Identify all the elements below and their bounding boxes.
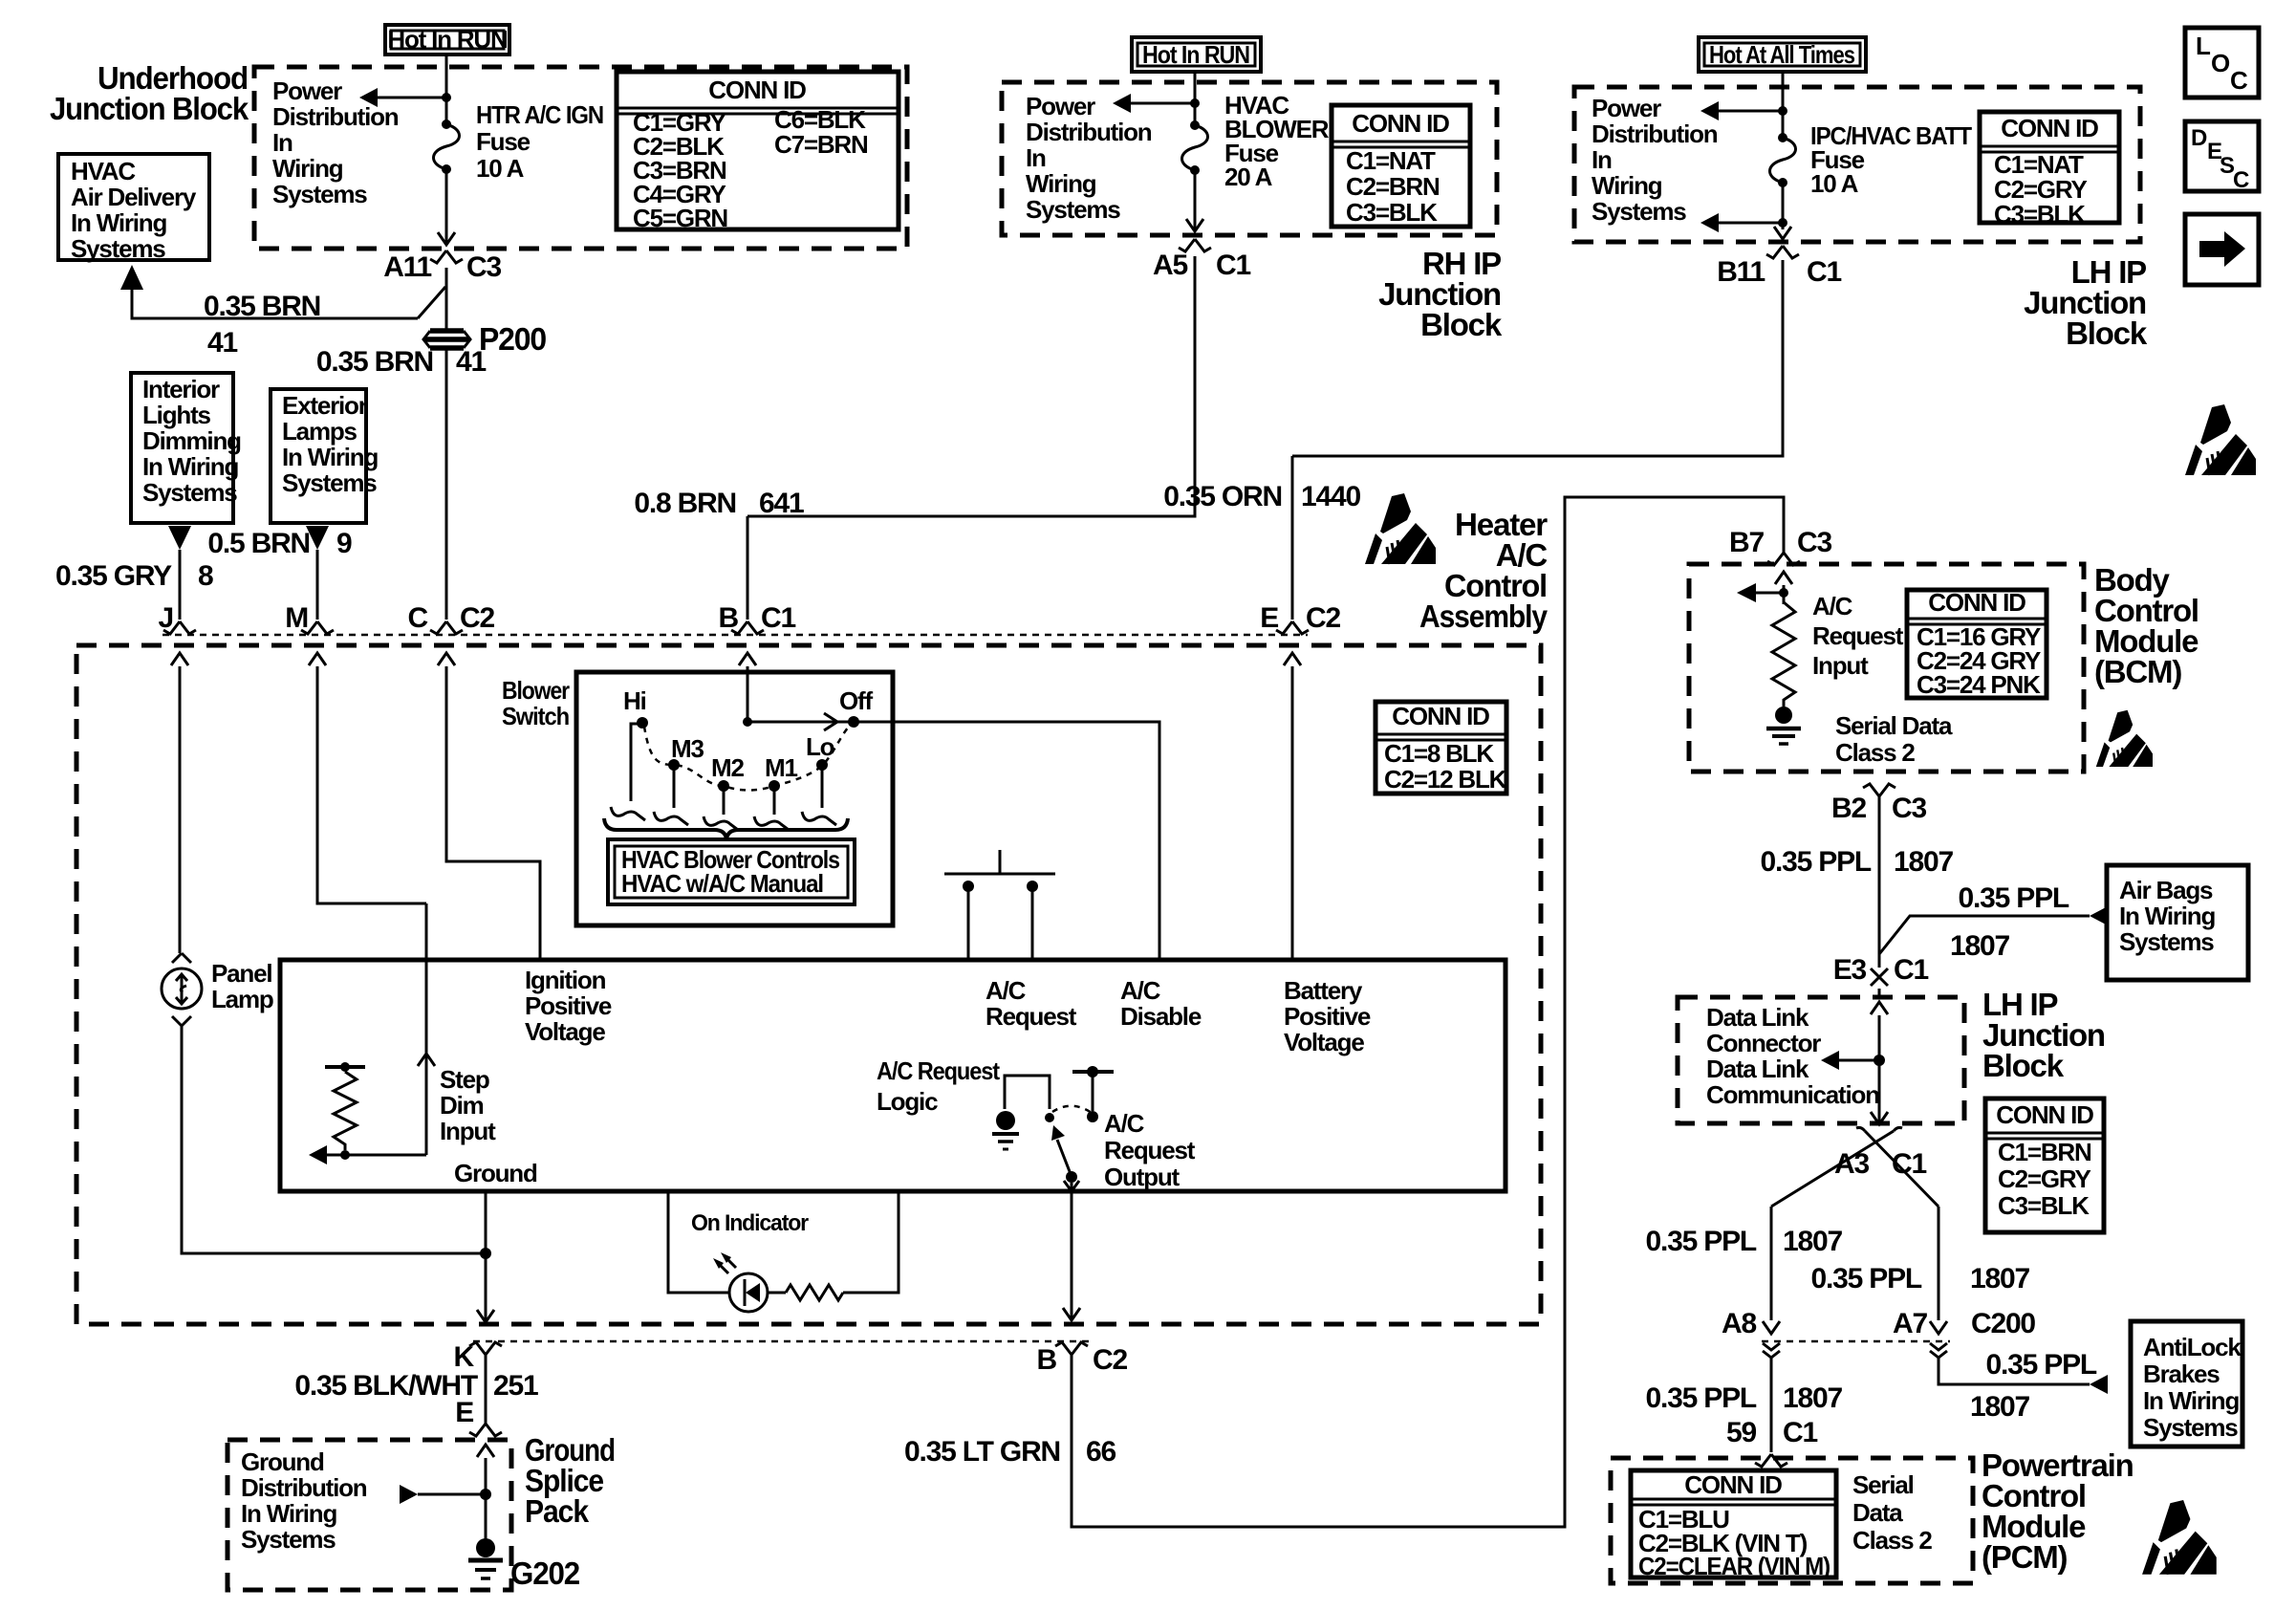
svg-text:CONN ID: CONN ID bbox=[708, 76, 806, 104]
svg-text:C2=BRN: C2=BRN bbox=[1346, 172, 1440, 201]
ground distribution feed arrow bbox=[400, 1485, 418, 1504]
svg-text:0.35 PPL: 0.35 PPL bbox=[1646, 1226, 1757, 1257]
HVAC Air Delivery reference box bbox=[58, 154, 209, 260]
connector thin dashed line (C200) bbox=[1762, 1340, 1950, 1343]
logic switch left contact bbox=[1045, 1113, 1054, 1122]
connector thin dashed line (assembly bottom) bbox=[473, 1340, 1090, 1343]
contact M2 bbox=[718, 780, 729, 792]
svg-text:Hi: Hi bbox=[623, 686, 646, 715]
svg-text:M3: M3 bbox=[671, 734, 704, 763]
power distribution arrow top (LH IP) bbox=[1718, 110, 1783, 113]
svg-text:1807: 1807 bbox=[1970, 1391, 2029, 1423]
on indicator resistor bbox=[786, 1285, 843, 1300]
entry arrow into splice pack bbox=[477, 1445, 494, 1457]
wire M inside assembly bbox=[317, 666, 426, 903]
svg-text:C1: C1 bbox=[1783, 1417, 1817, 1448]
wire Off to A/C disable bbox=[854, 722, 1159, 960]
svg-text:C1: C1 bbox=[1894, 954, 1928, 986]
svg-text:In Wiring: In Wiring bbox=[2143, 1386, 2239, 1415]
svg-text:C2: C2 bbox=[1306, 602, 1340, 634]
svg-text:0.35 PPL: 0.35 PPL bbox=[1959, 882, 2069, 914]
svg-text:Data Link: Data Link bbox=[1706, 1003, 1809, 1032]
svg-text:C: C bbox=[408, 602, 428, 634]
svg-text:Junction Block: Junction Block bbox=[50, 91, 249, 126]
svg-text:C3=24 PNK: C3=24 PNK bbox=[1917, 670, 2041, 699]
junction dot top (LH IP) bbox=[1778, 106, 1787, 116]
svg-text:K: K bbox=[454, 1341, 475, 1373]
svg-text:Exterior: Exterior bbox=[282, 391, 368, 420]
svg-text:A3: A3 bbox=[1834, 1148, 1869, 1180]
svg-text:0.35 BRN: 0.35 BRN bbox=[316, 346, 433, 378]
svg-text:CONN ID: CONN ID bbox=[1352, 109, 1449, 138]
svg-text:C: C bbox=[2230, 66, 2248, 95]
wire below fuse bbox=[1782, 183, 1785, 229]
connector A11/C3 fork bbox=[430, 250, 463, 263]
svg-text:C2=GRY: C2=GRY bbox=[1998, 1164, 2090, 1193]
svg-text:Ignition: Ignition bbox=[525, 966, 606, 994]
wire 0.35 BRN 41 to HVAC air delivery bbox=[132, 288, 418, 318]
connector fork E (splice pack) bbox=[469, 1424, 502, 1436]
svg-text:C1: C1 bbox=[1892, 1148, 1926, 1180]
svg-text:In Wiring: In Wiring bbox=[241, 1499, 336, 1528]
svg-text:Distribution: Distribution bbox=[1026, 118, 1152, 146]
svg-text:HTR A/C IGN: HTR A/C IGN bbox=[476, 100, 603, 129]
svg-text:Ground: Ground bbox=[241, 1447, 324, 1476]
wire 0.5 BRN 9 bbox=[316, 550, 319, 620]
A/C request logic ground branch bbox=[1005, 1076, 1050, 1109]
Powertrain Control Module dashed box bbox=[1611, 1458, 1973, 1583]
svg-text:Power: Power bbox=[1592, 94, 1661, 122]
svg-text:41: 41 bbox=[207, 327, 237, 359]
RH IP junction block dashed box bbox=[1002, 82, 1497, 235]
svg-text:Systems: Systems bbox=[272, 180, 367, 208]
svg-text:Assembly: Assembly bbox=[1419, 598, 1549, 634]
entry arrow into BCM bbox=[1775, 572, 1792, 584]
HVAC Blower Controls box bbox=[608, 839, 855, 904]
panel lamp to ground junction wire bbox=[182, 1026, 486, 1253]
svg-text:Block: Block bbox=[1982, 1048, 2065, 1083]
wire 0.35 PPL 1807 to antilock bbox=[1939, 1358, 2090, 1384]
svg-text:Output: Output bbox=[1104, 1163, 1180, 1191]
svg-text:HVAC w/A/C Manual: HVAC w/A/C Manual bbox=[621, 869, 823, 898]
air bags branch wire bbox=[1879, 916, 2090, 954]
svg-text:C3=BLK: C3=BLK bbox=[1998, 1191, 2090, 1220]
svg-text:C200: C200 bbox=[1971, 1308, 2035, 1339]
svg-text:A/C: A/C bbox=[1104, 1109, 1145, 1138]
blower switch box bbox=[576, 672, 893, 925]
wire into splice bbox=[485, 1458, 487, 1541]
svg-text:Lights: Lights bbox=[142, 401, 211, 429]
data link comm arrow bbox=[1838, 1059, 1879, 1062]
svg-text:B: B bbox=[719, 602, 739, 634]
junction dot (RH IP) bbox=[1190, 98, 1200, 108]
ESD symbol (heater assembly) bbox=[1365, 493, 1436, 564]
svg-text:C2: C2 bbox=[460, 602, 494, 634]
CONN ID table (BCM) bbox=[1907, 590, 2047, 698]
svg-text:Battery: Battery bbox=[1284, 976, 1363, 1005]
svg-text:Hot At All Times: Hot At All Times bbox=[1709, 40, 1855, 69]
contact Hi bbox=[637, 717, 648, 729]
svg-text:Voltage: Voltage bbox=[1284, 1028, 1364, 1056]
BCM ground bbox=[1775, 707, 1792, 724]
brace under switch contacts bbox=[604, 818, 848, 839]
Hot In RUN flag (underhood) bbox=[385, 25, 509, 54]
svg-text:251: 251 bbox=[493, 1370, 538, 1402]
Hot At All Times flag bbox=[1699, 37, 1866, 72]
svg-text:Input: Input bbox=[1812, 651, 1869, 680]
svg-text:Lo: Lo bbox=[806, 732, 834, 761]
contact Off dot bbox=[848, 716, 859, 728]
ground G202 symbol bbox=[476, 1538, 495, 1557]
svg-text:Serial Data: Serial Data bbox=[1835, 711, 1953, 740]
contact M3 bbox=[668, 759, 680, 771]
svg-text:Off: Off bbox=[839, 686, 873, 715]
Data Link Connector dashed box bbox=[1678, 997, 1964, 1123]
svg-text:Class 2: Class 2 bbox=[1835, 738, 1915, 767]
svg-text:1807: 1807 bbox=[1783, 1226, 1842, 1257]
junction dot bottom (LH IP) bbox=[1778, 218, 1787, 228]
fuse IPC/HVAC BATT 10 A bbox=[1778, 133, 1787, 142]
svg-text:AntiLock: AntiLock bbox=[2143, 1333, 2242, 1361]
wire hot in run to blower fuse bbox=[1194, 72, 1197, 125]
A/C request contact T bbox=[1072, 1070, 1114, 1074]
contact M3 curl bbox=[654, 812, 688, 825]
splice junction dot bbox=[480, 1489, 491, 1500]
svg-text:59: 59 bbox=[1726, 1417, 1756, 1448]
wire 0.35 PPL 1807 (BCM to E3) bbox=[1878, 796, 1881, 968]
ESD symbol (BCM) bbox=[2096, 710, 2153, 767]
arrow from interior lights box bbox=[168, 526, 191, 550]
svg-text:B11: B11 bbox=[1717, 256, 1765, 288]
svg-text:Positive: Positive bbox=[1284, 1002, 1371, 1031]
wire hot at all times to fuse bbox=[1782, 72, 1785, 138]
DESC legend box bbox=[2185, 121, 2259, 191]
connector A3/C1 cross bbox=[1856, 1127, 1902, 1131]
wire 0.35 PPL 1807 59 to PCM bbox=[1770, 1358, 1773, 1452]
wire 0.8 BRN 641 bbox=[747, 256, 1195, 620]
svg-text:Class 2: Class 2 bbox=[1852, 1526, 1932, 1555]
svg-text:In Wiring: In Wiring bbox=[2119, 902, 2215, 930]
svg-text:Distribution: Distribution bbox=[241, 1473, 367, 1502]
svg-text:CONN ID: CONN ID bbox=[1684, 1470, 1782, 1499]
svg-text:Request: Request bbox=[986, 1002, 1077, 1031]
svg-text:Pack: Pack bbox=[525, 1493, 590, 1529]
wire E3 to data link box bbox=[1878, 989, 1881, 997]
node junction dot (underhood feed) bbox=[442, 93, 451, 102]
LOC legend box bbox=[2185, 28, 2259, 98]
svg-text:A7: A7 bbox=[1893, 1308, 1927, 1339]
svg-text:M1: M1 bbox=[765, 753, 797, 782]
BCM request branch arrow bbox=[1755, 592, 1784, 595]
svg-text:CONN ID: CONN ID bbox=[1392, 702, 1489, 730]
connector B7/C3 fork bbox=[1767, 553, 1800, 565]
svg-text:Systems: Systems bbox=[241, 1525, 336, 1554]
ground junction dot bbox=[480, 1248, 491, 1259]
svg-text:C1=NAT: C1=NAT bbox=[1346, 146, 1436, 175]
CONN ID table (LH IP) bbox=[1980, 112, 2119, 223]
arrow legend box bbox=[2185, 214, 2259, 285]
svg-text:C2: C2 bbox=[1093, 1344, 1127, 1376]
data link junction dot bbox=[1874, 1055, 1885, 1066]
svg-text:Serial: Serial bbox=[1852, 1470, 1914, 1499]
svg-text:Dim: Dim bbox=[440, 1091, 484, 1120]
A/C request push button bbox=[944, 850, 1055, 874]
data link internal wire bbox=[1878, 1015, 1881, 1124]
contact M1 curl bbox=[754, 816, 789, 830]
wire 1807 right branch (A7) bbox=[1938, 1207, 1940, 1320]
svg-text:1440: 1440 bbox=[1301, 481, 1360, 512]
svg-text:Lamps: Lamps bbox=[282, 417, 357, 446]
svg-text:Switch: Switch bbox=[502, 702, 569, 730]
CONN ID table (data link) bbox=[1985, 1099, 2104, 1232]
svg-text:0.35 PPL: 0.35 PPL bbox=[1811, 1263, 1922, 1295]
svg-text:Voltage: Voltage bbox=[525, 1017, 605, 1046]
svg-text:Hot In RUN: Hot In RUN bbox=[387, 25, 508, 54]
connector E3/C1 cross bbox=[1871, 968, 1888, 986]
svg-text:Logic: Logic bbox=[877, 1087, 938, 1116]
svg-text:E: E bbox=[455, 1397, 473, 1428]
svg-text:C1=8 BLK: C1=8 BLK bbox=[1384, 739, 1494, 768]
connector B2/C3 fork bbox=[1863, 784, 1895, 796]
svg-text:O: O bbox=[2211, 49, 2230, 77]
svg-text:0.35 BLK/WHT: 0.35 BLK/WHT bbox=[294, 1370, 477, 1402]
BCM input resistor bbox=[1772, 602, 1795, 707]
svg-text:20 A: 20 A bbox=[1224, 163, 1273, 191]
svg-text:A/C: A/C bbox=[1120, 976, 1161, 1005]
svg-text:Systems: Systems bbox=[1026, 195, 1120, 224]
svg-text:A8: A8 bbox=[1722, 1308, 1756, 1339]
svg-text:0.35 PPL: 0.35 PPL bbox=[1986, 1349, 2097, 1381]
CONN ID table (PCM) bbox=[1631, 1470, 1836, 1577]
svg-text:Positive: Positive bbox=[525, 991, 612, 1020]
svg-text:E: E bbox=[1260, 602, 1278, 634]
power distribution arrow (RH IP) bbox=[1130, 102, 1195, 105]
arrow to B11 bbox=[1774, 227, 1791, 239]
svg-text:A/C: A/C bbox=[1812, 592, 1853, 620]
svg-text:Block: Block bbox=[1420, 307, 1503, 342]
fuse HVAC BLOWER 20 A bbox=[1190, 120, 1200, 130]
Body Control Module dashed box bbox=[1689, 564, 2084, 772]
LH IP junction block dashed box bbox=[1574, 87, 2140, 242]
svg-text:0.35 ORN: 0.35 ORN bbox=[1163, 481, 1282, 512]
svg-text:Brakes: Brakes bbox=[2143, 1360, 2220, 1388]
svg-text:Hot In RUN: Hot In RUN bbox=[1142, 40, 1249, 69]
svg-text:10 A: 10 A bbox=[1810, 169, 1859, 198]
wire 0.35 ORN 1440 bbox=[1292, 260, 1783, 620]
ESD symbol (legend) bbox=[2185, 404, 2256, 475]
svg-text:41: 41 bbox=[456, 346, 486, 378]
ground exit arrow and fork K bbox=[477, 1310, 494, 1322]
control assembly inner box bbox=[280, 960, 1505, 1191]
connector B11/C1 fork bbox=[1766, 246, 1799, 258]
wire fuse to A11 with arrow bbox=[445, 169, 448, 245]
Heater A/C Control Assembly dashed box bbox=[76, 645, 1541, 1324]
svg-text:Blower: Blower bbox=[502, 676, 570, 705]
wire 0.35 LT GRN 66 bbox=[1072, 497, 1784, 1527]
arrow from exterior lamps box bbox=[306, 526, 329, 550]
connector forks J M C B E bbox=[163, 621, 196, 634]
power distribution arrow (underhood) bbox=[377, 97, 446, 99]
svg-text:In: In bbox=[1026, 143, 1046, 172]
svg-text:Input: Input bbox=[440, 1117, 496, 1145]
svg-text:Systems: Systems bbox=[71, 234, 165, 263]
on indicator loop bbox=[668, 1191, 899, 1293]
node junction dot on switch feed bbox=[743, 717, 752, 727]
wire E inside assembly to battery input bbox=[1291, 666, 1294, 960]
svg-text:L: L bbox=[2196, 32, 2211, 60]
svg-text:M: M bbox=[285, 602, 308, 634]
svg-text:Data: Data bbox=[1852, 1498, 1903, 1527]
svg-text:641: 641 bbox=[759, 488, 804, 519]
ESD symbol (PCM) bbox=[2142, 1500, 2217, 1575]
svg-text:Block: Block bbox=[2066, 315, 2148, 351]
svg-text:Data Link: Data Link bbox=[1706, 1055, 1809, 1083]
svg-text:10 A: 10 A bbox=[476, 154, 525, 183]
svg-text:Wiring: Wiring bbox=[1026, 169, 1096, 198]
A/C request output wire bbox=[1071, 1183, 1073, 1191]
svg-text:B: B bbox=[1037, 1344, 1057, 1376]
wire switch common to Off bbox=[747, 721, 854, 724]
wire J inside assembly to panel lamp bbox=[179, 666, 182, 953]
arrow into HVAC air delivery box bbox=[120, 265, 143, 290]
contact M1 bbox=[769, 780, 780, 792]
svg-text:Interior: Interior bbox=[142, 375, 220, 403]
A/C request output exit wire bbox=[1071, 1191, 1073, 1320]
entry arrows into assembly bbox=[171, 653, 188, 665]
svg-text:C1: C1 bbox=[1807, 256, 1841, 288]
svg-text:Request: Request bbox=[1812, 621, 1904, 650]
CONN ID table (RH IP) bbox=[1332, 105, 1470, 227]
wire C inside assembly to ignition input bbox=[446, 666, 540, 960]
svg-text:1807: 1807 bbox=[1783, 1382, 1842, 1414]
svg-text:On Indicator: On Indicator bbox=[691, 1210, 809, 1236]
svg-text:C3=BLK: C3=BLK bbox=[1346, 198, 1438, 227]
svg-text:Ground: Ground bbox=[454, 1159, 537, 1187]
svg-text:CONN ID: CONN ID bbox=[1996, 1100, 2093, 1129]
svg-text:In: In bbox=[1592, 145, 1612, 174]
svg-text:(BCM): (BCM) bbox=[2094, 654, 2181, 689]
splice P200 bbox=[424, 331, 469, 348]
svg-text:B7: B7 bbox=[1729, 527, 1764, 558]
wire 0.35 GRY 8 bbox=[179, 550, 182, 620]
entry arrow into data link bbox=[1871, 1002, 1888, 1014]
wire 0.35 BLK/WHT 251 bbox=[485, 1355, 487, 1424]
svg-text:8: 8 bbox=[198, 560, 213, 592]
svg-text:0.8 BRN: 0.8 BRN bbox=[634, 488, 736, 519]
svg-text:C3: C3 bbox=[1797, 527, 1831, 558]
svg-text:Fuse: Fuse bbox=[476, 127, 531, 156]
ground wire out of inner box bbox=[485, 1191, 487, 1320]
CONN ID table (control assembly) bbox=[1375, 702, 1506, 794]
svg-text:Request: Request bbox=[1104, 1136, 1196, 1164]
wire P200 down to connector C bbox=[445, 350, 448, 620]
svg-text:1807: 1807 bbox=[1894, 846, 1953, 878]
svg-text:Systems: Systems bbox=[2119, 927, 2214, 956]
connector A5/C1 fork bbox=[1179, 239, 1211, 251]
wire branch diagonal to 0.35 BRN 41 bbox=[418, 287, 445, 318]
svg-text:(PCM): (PCM) bbox=[1982, 1539, 2068, 1575]
svg-text:Panel: Panel bbox=[211, 959, 271, 988]
svg-text:Disable: Disable bbox=[1120, 1002, 1202, 1031]
svg-text:Systems: Systems bbox=[142, 478, 237, 507]
svg-text:Power: Power bbox=[272, 76, 342, 105]
Exterior Lamps reference box bbox=[271, 389, 366, 523]
svg-text:Wiring: Wiring bbox=[272, 154, 343, 183]
svg-text:P200: P200 bbox=[479, 321, 546, 357]
svg-text:A5: A5 bbox=[1153, 250, 1187, 281]
svg-text:C: C bbox=[2233, 167, 2249, 193]
svg-text:A11: A11 bbox=[383, 251, 431, 283]
wire B inside assembly to blower switch bbox=[747, 666, 749, 722]
svg-text:0.35 PPL: 0.35 PPL bbox=[1646, 1382, 1757, 1414]
power distribution arrow bottom (LH IP) bbox=[1718, 222, 1783, 225]
svg-text:E3: E3 bbox=[1833, 954, 1867, 986]
svg-text:C5=GRN: C5=GRN bbox=[633, 204, 727, 232]
LED on indicator bbox=[729, 1273, 768, 1312]
BCM junction dot bbox=[1779, 588, 1788, 598]
contact Lo bbox=[816, 759, 828, 771]
svg-text:C1: C1 bbox=[761, 602, 795, 634]
svg-text:0.35 LT GRN: 0.35 LT GRN bbox=[904, 1436, 1060, 1468]
svg-text:G202: G202 bbox=[510, 1556, 580, 1591]
svg-text:Wiring: Wiring bbox=[1592, 171, 1662, 200]
step dim output arrow bbox=[326, 1154, 426, 1157]
svg-text:Air Bags: Air Bags bbox=[2119, 876, 2213, 904]
C200 double chevrons bbox=[1763, 1343, 1780, 1358]
wire A11 to P200 bbox=[445, 268, 448, 329]
svg-text:C3: C3 bbox=[1892, 793, 1926, 824]
svg-text:C3: C3 bbox=[466, 251, 501, 283]
wire from Hot In RUN to fuse bbox=[445, 54, 448, 122]
svg-text:Power: Power bbox=[1026, 92, 1095, 120]
arrow toward Off bbox=[824, 713, 837, 730]
svg-text:HVAC: HVAC bbox=[71, 157, 136, 185]
contact M2 curl bbox=[704, 816, 738, 830]
contact Lo curl bbox=[802, 812, 836, 825]
AntiLock Brakes reference box bbox=[2131, 1321, 2242, 1447]
svg-text:C2=CLEAR (VIN M): C2=CLEAR (VIN M) bbox=[1638, 1552, 1830, 1580]
svg-text:Systems: Systems bbox=[282, 468, 377, 497]
connector fork B/C2 bbox=[1055, 1342, 1088, 1355]
svg-text:C1: C1 bbox=[1216, 250, 1250, 281]
svg-text:A/C Request: A/C Request bbox=[877, 1056, 1000, 1085]
svg-text:A/C: A/C bbox=[986, 976, 1027, 1005]
svg-text:Systems: Systems bbox=[2143, 1413, 2238, 1442]
wire 1807 left branch (A8) bbox=[1770, 1207, 1773, 1320]
step dim resistor bbox=[325, 1065, 365, 1069]
svg-text:B2: B2 bbox=[1831, 793, 1866, 824]
svg-text:C7=BRN: C7=BRN bbox=[774, 130, 868, 159]
svg-text:0.35 PPL: 0.35 PPL bbox=[1761, 846, 1872, 878]
svg-text:0.35 GRY: 0.35 GRY bbox=[55, 560, 172, 592]
svg-text:D: D bbox=[2191, 125, 2207, 151]
svg-text:CONN ID: CONN ID bbox=[1928, 588, 2025, 617]
BCM request input wire bbox=[1783, 585, 1786, 604]
svg-text:In Wiring: In Wiring bbox=[142, 452, 238, 481]
logic switch dashed arc bbox=[1052, 1106, 1092, 1113]
svg-text:Dimming: Dimming bbox=[142, 426, 241, 455]
logic switch arm with arrow bbox=[1057, 1140, 1071, 1174]
rotary wiper dashed arc bbox=[644, 725, 851, 791]
svg-text:1807: 1807 bbox=[1950, 930, 2009, 962]
svg-text:Connector: Connector bbox=[1706, 1029, 1821, 1057]
contact Hi curl bbox=[611, 807, 645, 820]
svg-text:9: 9 bbox=[336, 528, 352, 559]
panel lamp bbox=[172, 953, 191, 963]
Underhood Junction Block dashed box bbox=[254, 67, 907, 249]
CONN ID table (underhood junction block) bbox=[617, 72, 899, 229]
wire fuse to A5 bbox=[1194, 170, 1197, 231]
